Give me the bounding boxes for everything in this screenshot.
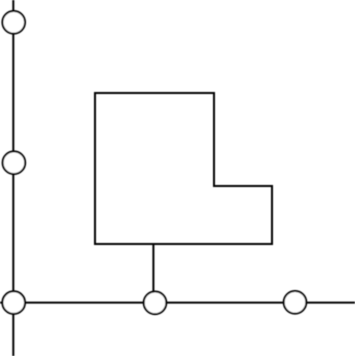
wire: stub from shape to node D	[152, 243, 154, 302]
component outline: L-shaped block	[95, 93, 272, 244]
wire: vertical bus left	[12, 0, 14, 356]
wire: horizontal bus bottom	[0, 302, 355, 304]
node D	[144, 292, 167, 315]
node A	[2, 11, 25, 34]
node C (junction)	[2, 291, 25, 314]
node E	[284, 291, 307, 314]
node B	[3, 151, 26, 174]
